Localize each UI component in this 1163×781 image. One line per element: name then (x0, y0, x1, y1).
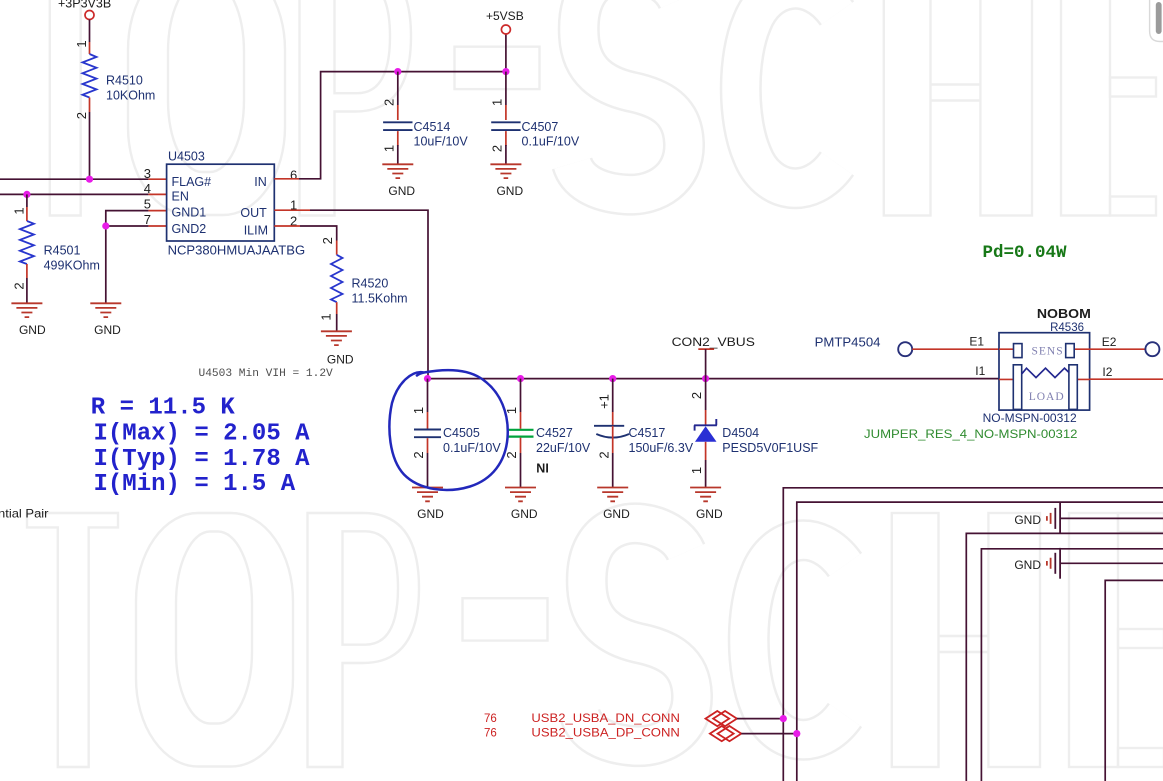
annotation JUMPER_RES (864, 427, 1078, 441)
wire nested L3 (966, 533, 1163, 781)
svg-text:GND: GND (1014, 558, 1041, 572)
net label CON2_VBUS (672, 335, 755, 379)
svg-text:GND: GND (388, 184, 415, 198)
svg-text:GND: GND (511, 507, 538, 521)
svg-text:R = 11.5 K: R = 11.5 K (91, 395, 236, 422)
svg-text:C4527: C4527 (536, 426, 573, 440)
svg-text:150uF/6.3V: 150uF/6.3V (629, 441, 694, 455)
svg-text:2: 2 (689, 392, 704, 399)
svg-text:1: 1 (319, 313, 334, 320)
IC U4503 power switch (167, 150, 306, 258)
svg-text:JUMPER_RES_4_NO-MSPN-00312: JUMPER_RES_4_NO-MSPN-00312 (864, 427, 1078, 441)
ground under C4517 (597, 488, 630, 522)
svg-text:NI: NI (536, 462, 549, 476)
svg-text:IN: IN (254, 175, 267, 189)
ground under U4503 GND pins (90, 303, 121, 337)
ground under R4501 (11, 303, 46, 337)
resistor R4536 current sense (983, 306, 1091, 425)
ground right GND1 (1014, 503, 1163, 534)
annotation R value blue (91, 395, 236, 422)
svg-text:76: 76 (484, 728, 497, 740)
svg-text:11.5Kohm: 11.5Kohm (352, 291, 408, 305)
svg-text:499KOhm: 499KOhm (44, 258, 100, 272)
resistor R4520 (319, 237, 408, 320)
svg-text:1: 1 (411, 407, 426, 414)
capacitor C4507 (490, 72, 580, 164)
svg-text:PESD5V0F1USF: PESD5V0F1USF (722, 441, 818, 455)
ground under D4504 (690, 488, 723, 522)
svg-text:GND: GND (696, 507, 723, 521)
svg-text:ILIM: ILIM (244, 223, 268, 237)
wire OUT pin to bus (274, 210, 428, 378)
wire ILIM pin to R4520 (274, 226, 336, 255)
ground under R4520 (321, 331, 354, 366)
wire VBUS bus (428, 378, 999, 380)
node EN junction (23, 191, 30, 198)
node DN junction (780, 715, 787, 722)
svg-text:4: 4 (144, 181, 151, 196)
off-page connector USB2_USBA_DP_CONN (484, 726, 797, 742)
capacitor C4517 polarized (594, 379, 694, 487)
svg-text:SENS: SENS (1032, 346, 1064, 358)
wire GND1 pin (106, 211, 167, 303)
svg-text:+5VSB: +5VSB (486, 9, 524, 23)
pin number 6 (290, 168, 297, 183)
annotation I max blue (94, 420, 311, 447)
node bus junction D4504 (702, 375, 709, 382)
svg-text:R4520: R4520 (352, 277, 389, 291)
svg-text:10KOhm: 10KOhm (106, 88, 155, 102)
svg-text:2: 2 (596, 451, 611, 458)
node DP junction (793, 730, 800, 737)
wire from +3P3V3B to R4510 (89, 20, 91, 55)
svg-text:10uF/10V: 10uF/10V (414, 135, 469, 149)
power symbol +3P3V3B (58, 0, 111, 20)
annotation hand-drawn ellipse (389, 370, 507, 490)
svg-text:GND: GND (19, 323, 46, 337)
wire EN net (0, 193, 167, 195)
ground under C4505 (412, 488, 444, 522)
pin number 5 (144, 197, 151, 212)
svg-text:GND1: GND1 (172, 206, 207, 220)
capacitor C4514 (382, 72, 469, 164)
svg-text:ntial Pair: ntial Pair (0, 507, 49, 521)
svg-text:I(Min) = 1.5 A: I(Min) = 1.5 A (94, 471, 296, 498)
test point PMTP4504 (815, 336, 913, 357)
svg-text:CON2_VBUS: CON2_VBUS (672, 335, 755, 349)
svg-text:5: 5 (144, 197, 151, 212)
wire R4520 to ground (336, 302, 338, 331)
svg-text:I(Max) = 2.05 A: I(Max) = 2.05 A (94, 420, 311, 447)
svg-text:I2: I2 (1102, 365, 1112, 379)
svg-text:NCP380HMUAJAATBG: NCP380HMUAJAATBG (168, 244, 306, 258)
svg-text:1: 1 (689, 467, 704, 474)
svg-text:2: 2 (382, 99, 397, 106)
wire nested L4 (981, 549, 1163, 781)
svg-text:U4503: U4503 (168, 150, 205, 164)
ground right GND2 (1014, 548, 1163, 579)
wire R4501 to ground (26, 264, 28, 303)
svg-text:1: 1 (12, 207, 27, 214)
svg-text:2: 2 (320, 237, 335, 244)
node FLAG junction (86, 176, 93, 183)
svg-text:C4514: C4514 (414, 120, 451, 134)
svg-text:EN: EN (172, 190, 189, 204)
pin number 2 ILIM (290, 214, 297, 229)
svg-text:1: 1 (490, 99, 505, 106)
svg-text:E2: E2 (1102, 335, 1117, 349)
svg-text:GND: GND (417, 507, 444, 521)
pin number 4 (144, 181, 151, 196)
node GND2 junction (102, 222, 109, 229)
svg-text:R4510: R4510 (106, 74, 143, 88)
svg-text:22uF/10V: 22uF/10V (536, 441, 591, 455)
pin number 7 (144, 212, 151, 227)
svg-text:LOAD: LOAD (1029, 391, 1065, 403)
watermark row bottom (27, 513, 1163, 767)
power symbol +5VSB (486, 9, 524, 72)
wire R4510 to FLAG junction (89, 98, 91, 180)
svg-text:2: 2 (504, 451, 519, 458)
off-page connector USB2_USBA_DN_CONN (484, 711, 783, 726)
pin number 1 OUT (290, 198, 297, 213)
svg-text:E1: E1 (969, 335, 984, 349)
svg-text:GND: GND (603, 507, 630, 521)
svg-text:OUT: OUT (240, 206, 267, 220)
wire FLAG# net (0, 178, 167, 180)
svg-text:+3P3V3B: +3P3V3B (58, 0, 111, 11)
svg-text:C4505: C4505 (443, 426, 480, 440)
wire IN pin to +5VSB rail (274, 72, 506, 179)
svg-text:NOBOM: NOBOM (1037, 306, 1091, 321)
svg-text:USB2_USBA_DN_CONN: USB2_USBA_DN_CONN (531, 711, 680, 725)
svg-text:GND: GND (496, 184, 523, 198)
svg-text:USB2_USBA_DP_CONN: USB2_USBA_DP_CONN (531, 726, 680, 740)
svg-text:2: 2 (12, 282, 27, 289)
svg-text:0.1uF/10V: 0.1uF/10V (443, 441, 501, 455)
label ntial Pair (0, 507, 49, 521)
svg-text:D4504: D4504 (722, 426, 759, 440)
svg-text:C4517: C4517 (629, 426, 666, 440)
annotation I min blue (94, 471, 296, 498)
wire nested L2 (797, 502, 1163, 781)
label I1 (975, 364, 985, 378)
wire nested L1 (783, 488, 1163, 781)
note U4503 Min VIH (199, 368, 334, 380)
wire E2 (1090, 335, 1160, 356)
node bus junction C4505 (424, 375, 431, 382)
svg-text:U4503 Min VIH = 1.2V: U4503 Min VIH = 1.2V (199, 368, 334, 380)
svg-text:76: 76 (484, 713, 497, 725)
svg-text:I1: I1 (975, 364, 985, 378)
svg-text:6: 6 (290, 168, 297, 183)
node rail junction C4507 (502, 68, 509, 75)
svg-text:GND: GND (94, 323, 121, 337)
node rail junction C4514 (394, 68, 401, 75)
svg-text:GND: GND (327, 353, 354, 367)
node bus junction C4517 (609, 375, 616, 382)
wire E1 (912, 335, 999, 350)
svg-text:3: 3 (144, 166, 151, 181)
scrollbar top right (1150, 0, 1163, 42)
resistor R4510 (74, 40, 155, 119)
diode D4504 TVS (689, 379, 819, 487)
watermark row top (19, 0, 1156, 216)
svg-text:2: 2 (411, 451, 426, 458)
wire GND2 pin (106, 225, 167, 227)
ground under C4527 (505, 488, 538, 522)
svg-text:NO-MSPN-00312: NO-MSPN-00312 (983, 411, 1077, 425)
svg-text:I(Typ) = 1.78 A: I(Typ) = 1.78 A (94, 446, 311, 473)
svg-text:C4507: C4507 (522, 120, 559, 134)
svg-text:0.1uF/10V: 0.1uF/10V (522, 135, 580, 149)
capacitor C4527 (504, 379, 591, 487)
wire I2 (1090, 365, 1163, 379)
svg-text:7: 7 (144, 212, 151, 227)
svg-text:GND2: GND2 (172, 222, 207, 236)
svg-text:Pd=0.04W: Pd=0.04W (983, 243, 1068, 263)
resistor R4501 (12, 207, 100, 289)
pin number 3 (144, 166, 151, 181)
svg-text:2: 2 (490, 145, 505, 152)
ground under C4514 (382, 164, 415, 198)
svg-text:FLAG#: FLAG# (172, 175, 212, 189)
annotation I typ blue (94, 446, 311, 473)
ground under C4507 (490, 164, 523, 198)
node bus junction C4527 (517, 375, 524, 382)
annotation Pd=0.04W (983, 243, 1068, 263)
svg-text:R4501: R4501 (44, 244, 81, 258)
svg-text:1: 1 (74, 40, 89, 47)
capacitor C4505 (411, 379, 501, 487)
svg-text:2: 2 (74, 112, 89, 119)
svg-text:1: 1 (382, 145, 397, 152)
wire nested L5 (1105, 580, 1163, 781)
svg-text:GND: GND (1014, 513, 1041, 527)
svg-text:PMTP4504: PMTP4504 (815, 336, 881, 350)
wire EN junction to R4501 (26, 194, 28, 221)
svg-text:+1: +1 (596, 394, 611, 409)
